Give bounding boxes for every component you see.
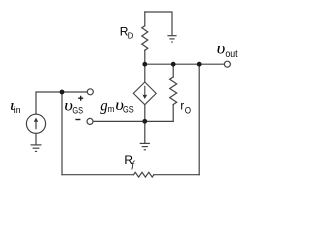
resistor rO: [170, 77, 177, 105]
wire bottom left segment: [62, 174, 134, 176]
junction at right branch: [197, 62, 202, 67]
plus sign: [78, 96, 83, 101]
terminal vGS minus: [87, 118, 93, 124]
wire right branch vertical: [198, 64, 200, 175]
wire bottom right segment: [154, 174, 199, 176]
junction at rO top: [171, 62, 176, 67]
resistor Rf: [134, 172, 154, 177]
svg-text:GS: GS: [72, 106, 83, 116]
terminal vGS plus: [87, 89, 93, 95]
ground G3 top right: [167, 36, 176, 42]
svg-text:r: r: [180, 100, 184, 112]
wire ground stem G2: [144, 121, 146, 143]
svg-text:GS: GS: [123, 105, 134, 115]
wire input source top to vGS plus terminal: [36, 92, 87, 114]
resistor RD: [142, 26, 148, 51]
junction node A: [60, 90, 65, 95]
wire RD bottom lead: [144, 50, 146, 64]
svg-text:O: O: [185, 105, 192, 116]
wire node A down left side: [61, 92, 63, 175]
junction at ground node B: [142, 119, 147, 124]
svg-text:υ: υ: [64, 96, 73, 114]
svg-text:in: in: [14, 105, 21, 116]
minus sign: [75, 119, 80, 121]
ground G1 below current source: [31, 145, 42, 152]
terminal vout: [224, 61, 230, 67]
wire U1 bottom lead: [144, 105, 146, 122]
svg-text:out: out: [225, 48, 238, 60]
dependent source U1 diamond: [133, 82, 156, 105]
junction drain node at RD: [142, 62, 147, 67]
wire rO bottom lead: [172, 105, 174, 122]
wire rO top lead: [172, 64, 174, 77]
svg-text:m: m: [108, 103, 115, 114]
current source I1 circle: [26, 114, 45, 133]
wire RD top lead: [144, 12, 146, 26]
ground G2 middle bottom: [140, 143, 150, 149]
svg-text:g: g: [100, 97, 108, 115]
svg-text:υ: υ: [217, 39, 226, 57]
wire RD top to ground G3: [145, 12, 172, 35]
svg-text:D: D: [128, 31, 134, 40]
wire vGS minus terminal to rO bottom: [93, 120, 173, 122]
wire U1 top lead: [144, 64, 146, 82]
wire top output bus: [145, 63, 224, 65]
svg-text:f: f: [131, 160, 135, 171]
wire input source bottom lead: [35, 133, 37, 144]
